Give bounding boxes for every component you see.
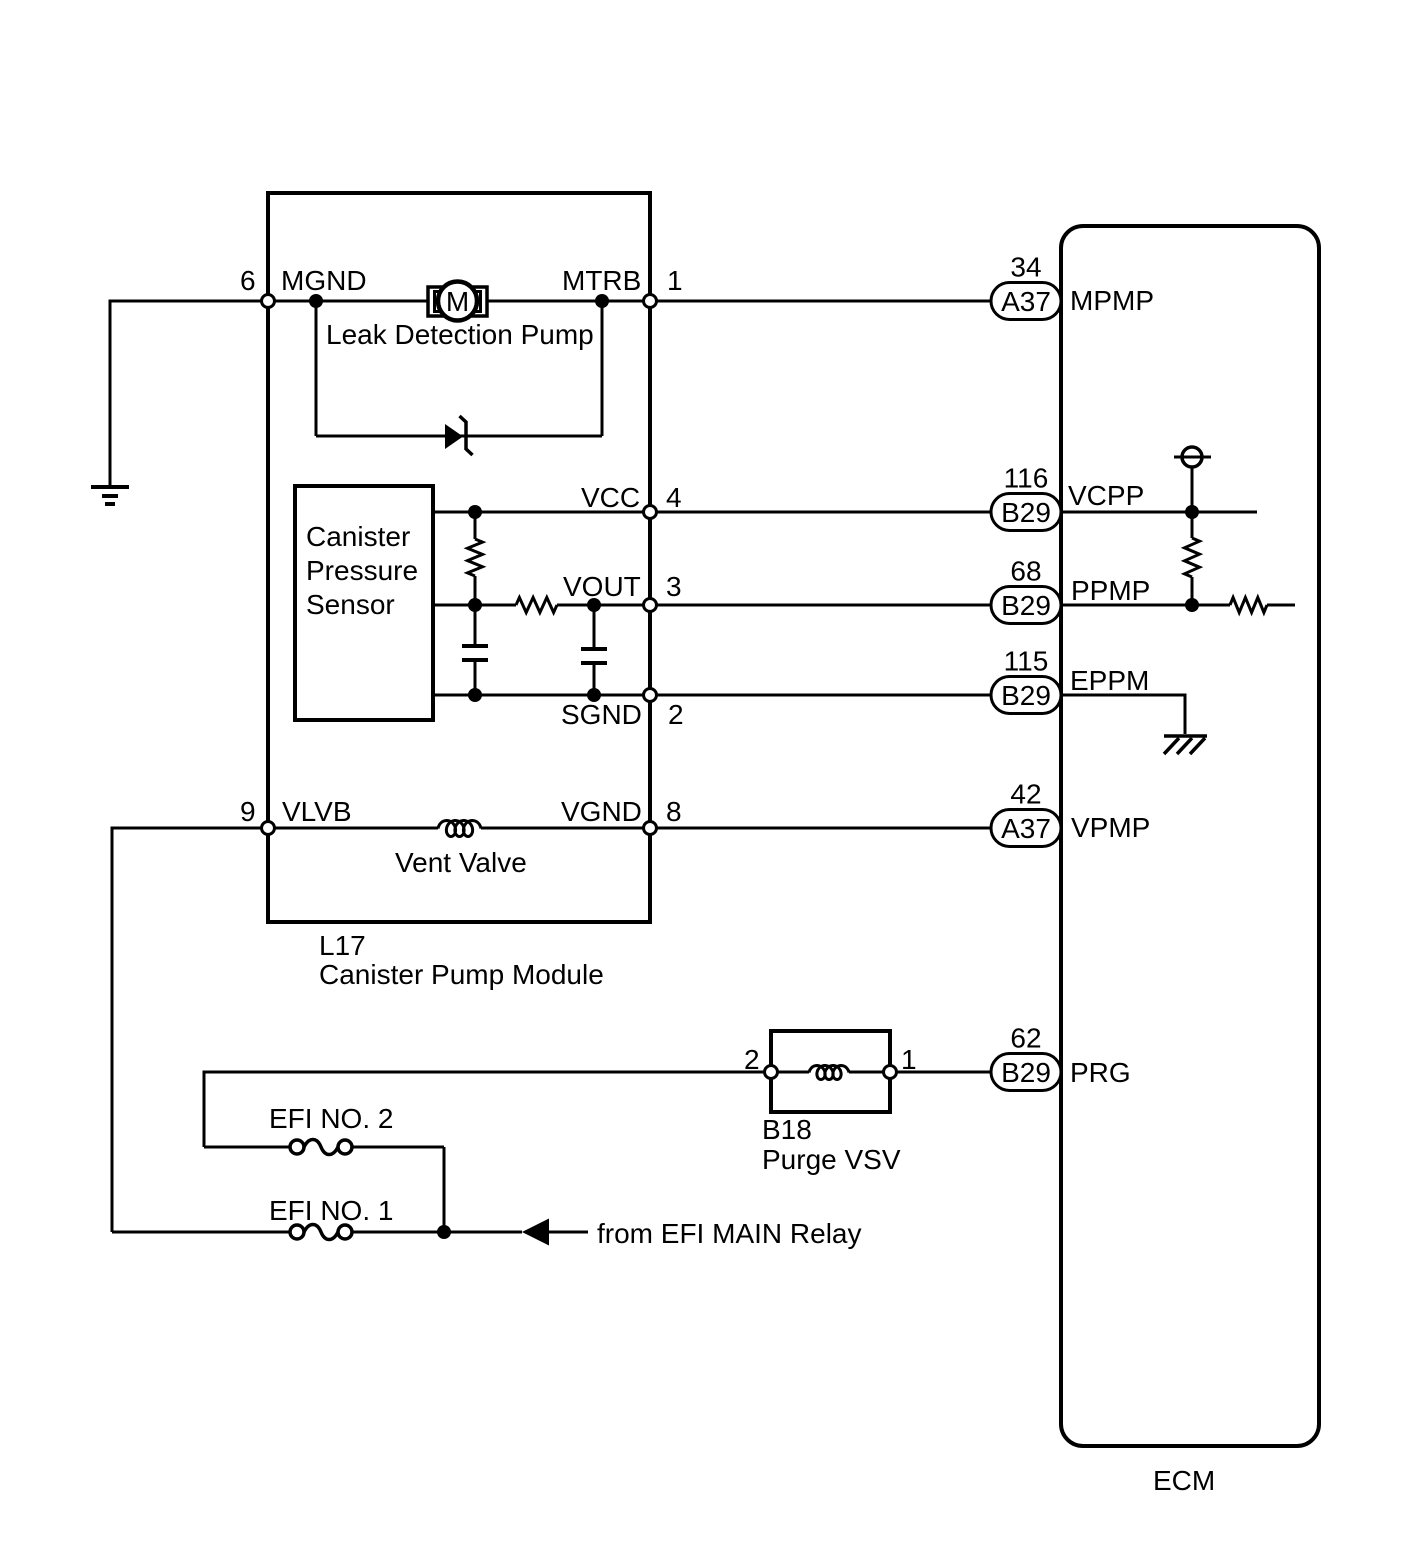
wire VOUT row right (557, 604, 650, 607)
svg-text:VPMP: VPMP (1071, 812, 1150, 843)
svg-text:9: 9 (240, 796, 256, 827)
chassis ground EPPM (1164, 736, 1207, 754)
canister pressure sensor box (295, 486, 433, 720)
svg-text:2: 2 (668, 699, 684, 730)
connector oval A37 pin 34 (991, 252, 1061, 320)
svg-text:8: 8 (666, 796, 682, 827)
svg-text:4: 4 (666, 482, 682, 513)
svg-text:MGND: MGND (281, 265, 367, 296)
junction node SGND-1 (468, 688, 482, 702)
ECM resistor stubs (1191, 512, 1194, 538)
wire VOUT row left (433, 604, 516, 607)
wire EFI NO.2 row (204, 1146, 290, 1149)
motor circle M (438, 282, 477, 321)
wire VCC row (433, 511, 650, 514)
purge VSV box B18 (771, 1031, 890, 1112)
svg-text:1: 1 (901, 1044, 917, 1075)
pin 2 (644, 689, 657, 702)
svg-text:6: 6 (240, 265, 256, 296)
svg-text:VGND: VGND (561, 796, 642, 827)
module L17 box (268, 193, 650, 922)
purge VSV coil (771, 1071, 809, 1074)
capacitor C1 stubs (474, 605, 477, 646)
ground symbol (earth) left (91, 487, 129, 504)
junction node VCPP (1185, 505, 1199, 519)
ECM internal PPMP wire (1061, 604, 1230, 607)
pin 8 (644, 822, 657, 835)
svg-text:VLVB: VLVB (282, 796, 352, 827)
ECM internal VCPP wire (1061, 511, 1257, 514)
motor inner bracket left (435, 292, 441, 312)
svg-text:Leak Detection Pump: Leak Detection Pump (326, 319, 594, 350)
wire pin4 to B29 oval (650, 511, 995, 514)
wire PRG row (204, 1072, 771, 1147)
svg-text:115: 115 (1004, 646, 1049, 677)
svg-text:MTRB: MTRB (562, 265, 641, 296)
svg-text:B29: B29 (1001, 680, 1051, 711)
fuse EFI NO.1 (290, 1225, 304, 1239)
ECM horizontal resistor (1230, 598, 1267, 613)
capacitor C2 stubs (593, 605, 596, 649)
connector oval B29 pin 116 (991, 463, 1061, 531)
wire pin1 to A37 oval (650, 300, 995, 303)
pin 3 (644, 599, 657, 612)
wire diode branch left (315, 301, 318, 436)
resistor in sensor (vertical) (468, 539, 483, 576)
wire sensor resistor stubs (474, 512, 477, 539)
ECM internal EPPM wire (1061, 695, 1185, 734)
svg-text:42: 42 (1010, 779, 1041, 810)
B18 pin 2 (765, 1066, 778, 1079)
ECM vertical resistor (1185, 538, 1200, 577)
junction node PPMP (1185, 598, 1199, 612)
wire EFI2 to EFI1 vertical (443, 1147, 446, 1232)
svg-text:Sensor: Sensor (306, 589, 395, 620)
svg-text:from EFI MAIN Relay: from EFI MAIN Relay (597, 1218, 861, 1249)
wire pin2 to B29 oval (650, 694, 995, 697)
svg-text:A37: A37 (1001, 813, 1051, 844)
power symbol circle (1182, 447, 1202, 467)
motor inner bracket right (475, 292, 481, 312)
junction node SGND-2 (587, 688, 601, 702)
svg-text:3: 3 (666, 571, 682, 602)
svg-text:1: 1 (667, 265, 683, 296)
svg-text:EFI NO. 1: EFI NO. 1 (269, 1195, 393, 1226)
svg-text:Purge VSV: Purge VSV (762, 1144, 901, 1175)
wire SGND row (433, 694, 650, 697)
svg-text:A37: A37 (1001, 286, 1051, 317)
capacitor C1 plates (462, 644, 488, 648)
svg-text:EFI NO. 2: EFI NO. 2 (269, 1103, 393, 1134)
svg-text:L17: L17 (319, 930, 366, 961)
svg-text:B29: B29 (1001, 1057, 1051, 1088)
svg-text:VCC: VCC (581, 482, 640, 513)
junction node VCC (468, 505, 482, 519)
vent valve coil (438, 821, 481, 837)
svg-text:ECM: ECM (1153, 1465, 1215, 1496)
wire EFI NO.1 row (112, 1231, 290, 1234)
wire pin8 to A37 oval (650, 827, 995, 830)
wire VLVB row left to EFI (112, 828, 268, 1232)
svg-text:SGND: SGND (561, 699, 642, 730)
connector oval B29 pin 115 (991, 646, 1061, 714)
junction node EFI (437, 1225, 451, 1239)
diode (zener) of leak detection pump (445, 424, 463, 449)
svg-text:Canister Pump Module: Canister Pump Module (319, 959, 604, 990)
svg-text:Vent Valve: Vent Valve (395, 847, 527, 878)
svg-text:2: 2 (744, 1044, 760, 1075)
wire MGND-MTRB inside module (268, 300, 650, 303)
connector oval B29 pin 68 (991, 556, 1061, 624)
junction node MTRB (595, 294, 609, 308)
wire pin3 to B29 oval (650, 604, 995, 607)
fuse EFI NO.2 (290, 1140, 304, 1154)
connector oval A37 pin 42 (991, 779, 1061, 847)
pin 1 (644, 295, 657, 308)
svg-text:62: 62 (1010, 1023, 1041, 1054)
svg-text:B29: B29 (1001, 497, 1051, 528)
svg-text:MPMP: MPMP (1070, 285, 1154, 316)
pin 6 (262, 295, 275, 308)
svg-text:VOUT: VOUT (563, 571, 641, 602)
svg-text:M: M (446, 286, 469, 317)
svg-text:PPMP: PPMP (1071, 575, 1150, 606)
svg-text:Pressure: Pressure (306, 555, 418, 586)
B18 pin 1 (884, 1066, 897, 1079)
svg-text:PRG: PRG (1070, 1057, 1131, 1088)
ECM PPMP wire right tail (1267, 604, 1295, 607)
junction node VOUT-C (587, 598, 601, 612)
wire MGND row to ground (110, 301, 268, 487)
wire diode branch right (601, 301, 604, 436)
pin 4 (644, 506, 657, 519)
wire VLVB-VGND inside module (268, 827, 438, 830)
svg-text:Canister: Canister (306, 521, 410, 552)
svg-text:68: 68 (1010, 556, 1041, 587)
power symbol stem (1191, 467, 1194, 512)
svg-text:VCPP: VCPP (1068, 480, 1144, 511)
svg-text:34: 34 (1010, 252, 1041, 283)
ECM box (1061, 226, 1319, 1446)
connector oval B29 pin 62 (991, 1023, 1061, 1091)
junction node MGND (309, 294, 323, 308)
wire arrow tail (549, 1231, 588, 1234)
svg-text:116: 116 (1004, 463, 1049, 494)
svg-text:EPPM: EPPM (1070, 665, 1149, 696)
resistor VOUT series (516, 598, 557, 613)
motor symbol housing (428, 287, 487, 316)
wire B18 to B29 oval (890, 1071, 995, 1074)
junction node VOUT-R (468, 598, 482, 612)
svg-text:B29: B29 (1001, 590, 1051, 621)
arrow from EFI MAIN relay (522, 1219, 549, 1246)
capacitor C2 plates (581, 647, 607, 651)
wire diode horizontal (316, 435, 602, 438)
svg-text:B18: B18 (762, 1114, 812, 1145)
pin 9 (262, 822, 275, 835)
